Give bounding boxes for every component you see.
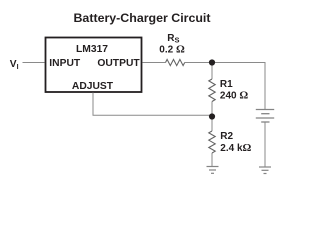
svg-text:OUTPUT: OUTPUT bbox=[97, 58, 140, 69]
svg-text:Battery-Charger Circuit: Battery-Charger Circuit bbox=[73, 11, 210, 25]
svg-text:0.2 Ω: 0.2 Ω bbox=[159, 43, 185, 55]
svg-text:R1: R1 bbox=[220, 79, 233, 90]
svg-text:240 Ω: 240 Ω bbox=[220, 90, 248, 102]
svg-text:2.4 kΩ: 2.4 kΩ bbox=[220, 142, 251, 154]
svg-text:R2: R2 bbox=[220, 131, 233, 142]
svg-text:INPUT: INPUT bbox=[49, 58, 81, 69]
svg-text:LM317: LM317 bbox=[76, 44, 108, 55]
svg-text:ADJUST: ADJUST bbox=[72, 81, 114, 92]
